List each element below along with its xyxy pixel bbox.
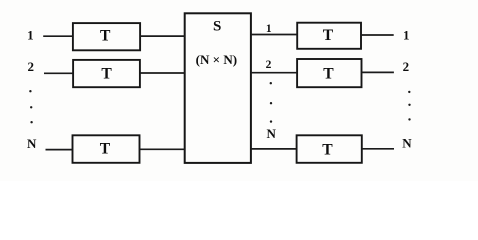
wire inputN to T bbox=[46, 149, 73, 151]
svg-text:2: 2 bbox=[403, 59, 410, 74]
svg-text:2: 2 bbox=[266, 59, 272, 71]
wire T row1 to S bbox=[140, 35, 185, 37]
wire input2 to T bbox=[44, 72, 73, 74]
wire T row2 to S bbox=[140, 72, 185, 74]
wire S to T right rowN bbox=[251, 148, 297, 150]
box T right row1 bbox=[297, 23, 361, 49]
svg-text:T: T bbox=[322, 141, 333, 158]
box T left rowN bbox=[73, 135, 140, 163]
ellipsis dots left bbox=[29, 90, 33, 123]
svg-text:N: N bbox=[402, 136, 412, 151]
ellipsis dots right bbox=[408, 91, 411, 121]
wire S to T right row2 bbox=[251, 72, 297, 74]
svg-text:(N × N): (N × N) bbox=[196, 52, 238, 67]
svg-text:1: 1 bbox=[266, 23, 272, 35]
svg-text:S: S bbox=[213, 19, 221, 35]
ellipsis dots centre bbox=[270, 82, 273, 123]
wire T right row1 to output1 bbox=[361, 34, 394, 36]
svg-text:N: N bbox=[267, 126, 277, 141]
svg-text:T: T bbox=[100, 27, 111, 44]
box T right rowN bbox=[297, 135, 362, 163]
wire T right row2 to output2 bbox=[362, 71, 394, 73]
svg-text:N: N bbox=[27, 136, 37, 151]
wire input1 to T bbox=[43, 35, 73, 37]
svg-text:T: T bbox=[100, 140, 111, 157]
wire T rowN to S bbox=[139, 148, 185, 150]
box T right row2 bbox=[297, 59, 361, 87]
svg-text:1: 1 bbox=[403, 27, 410, 42]
box T left row2 bbox=[73, 60, 140, 87]
svg-text:T: T bbox=[323, 27, 334, 44]
svg-text:T: T bbox=[323, 66, 334, 83]
wire T right rowN to outputN bbox=[362, 148, 394, 150]
svg-text:2: 2 bbox=[27, 59, 34, 74]
wire S to T right row1 bbox=[251, 34, 297, 36]
switch box S (N x N) bbox=[185, 13, 251, 163]
svg-text:T: T bbox=[101, 66, 112, 83]
svg-text:1: 1 bbox=[27, 27, 34, 42]
box T left row1 bbox=[73, 23, 140, 50]
